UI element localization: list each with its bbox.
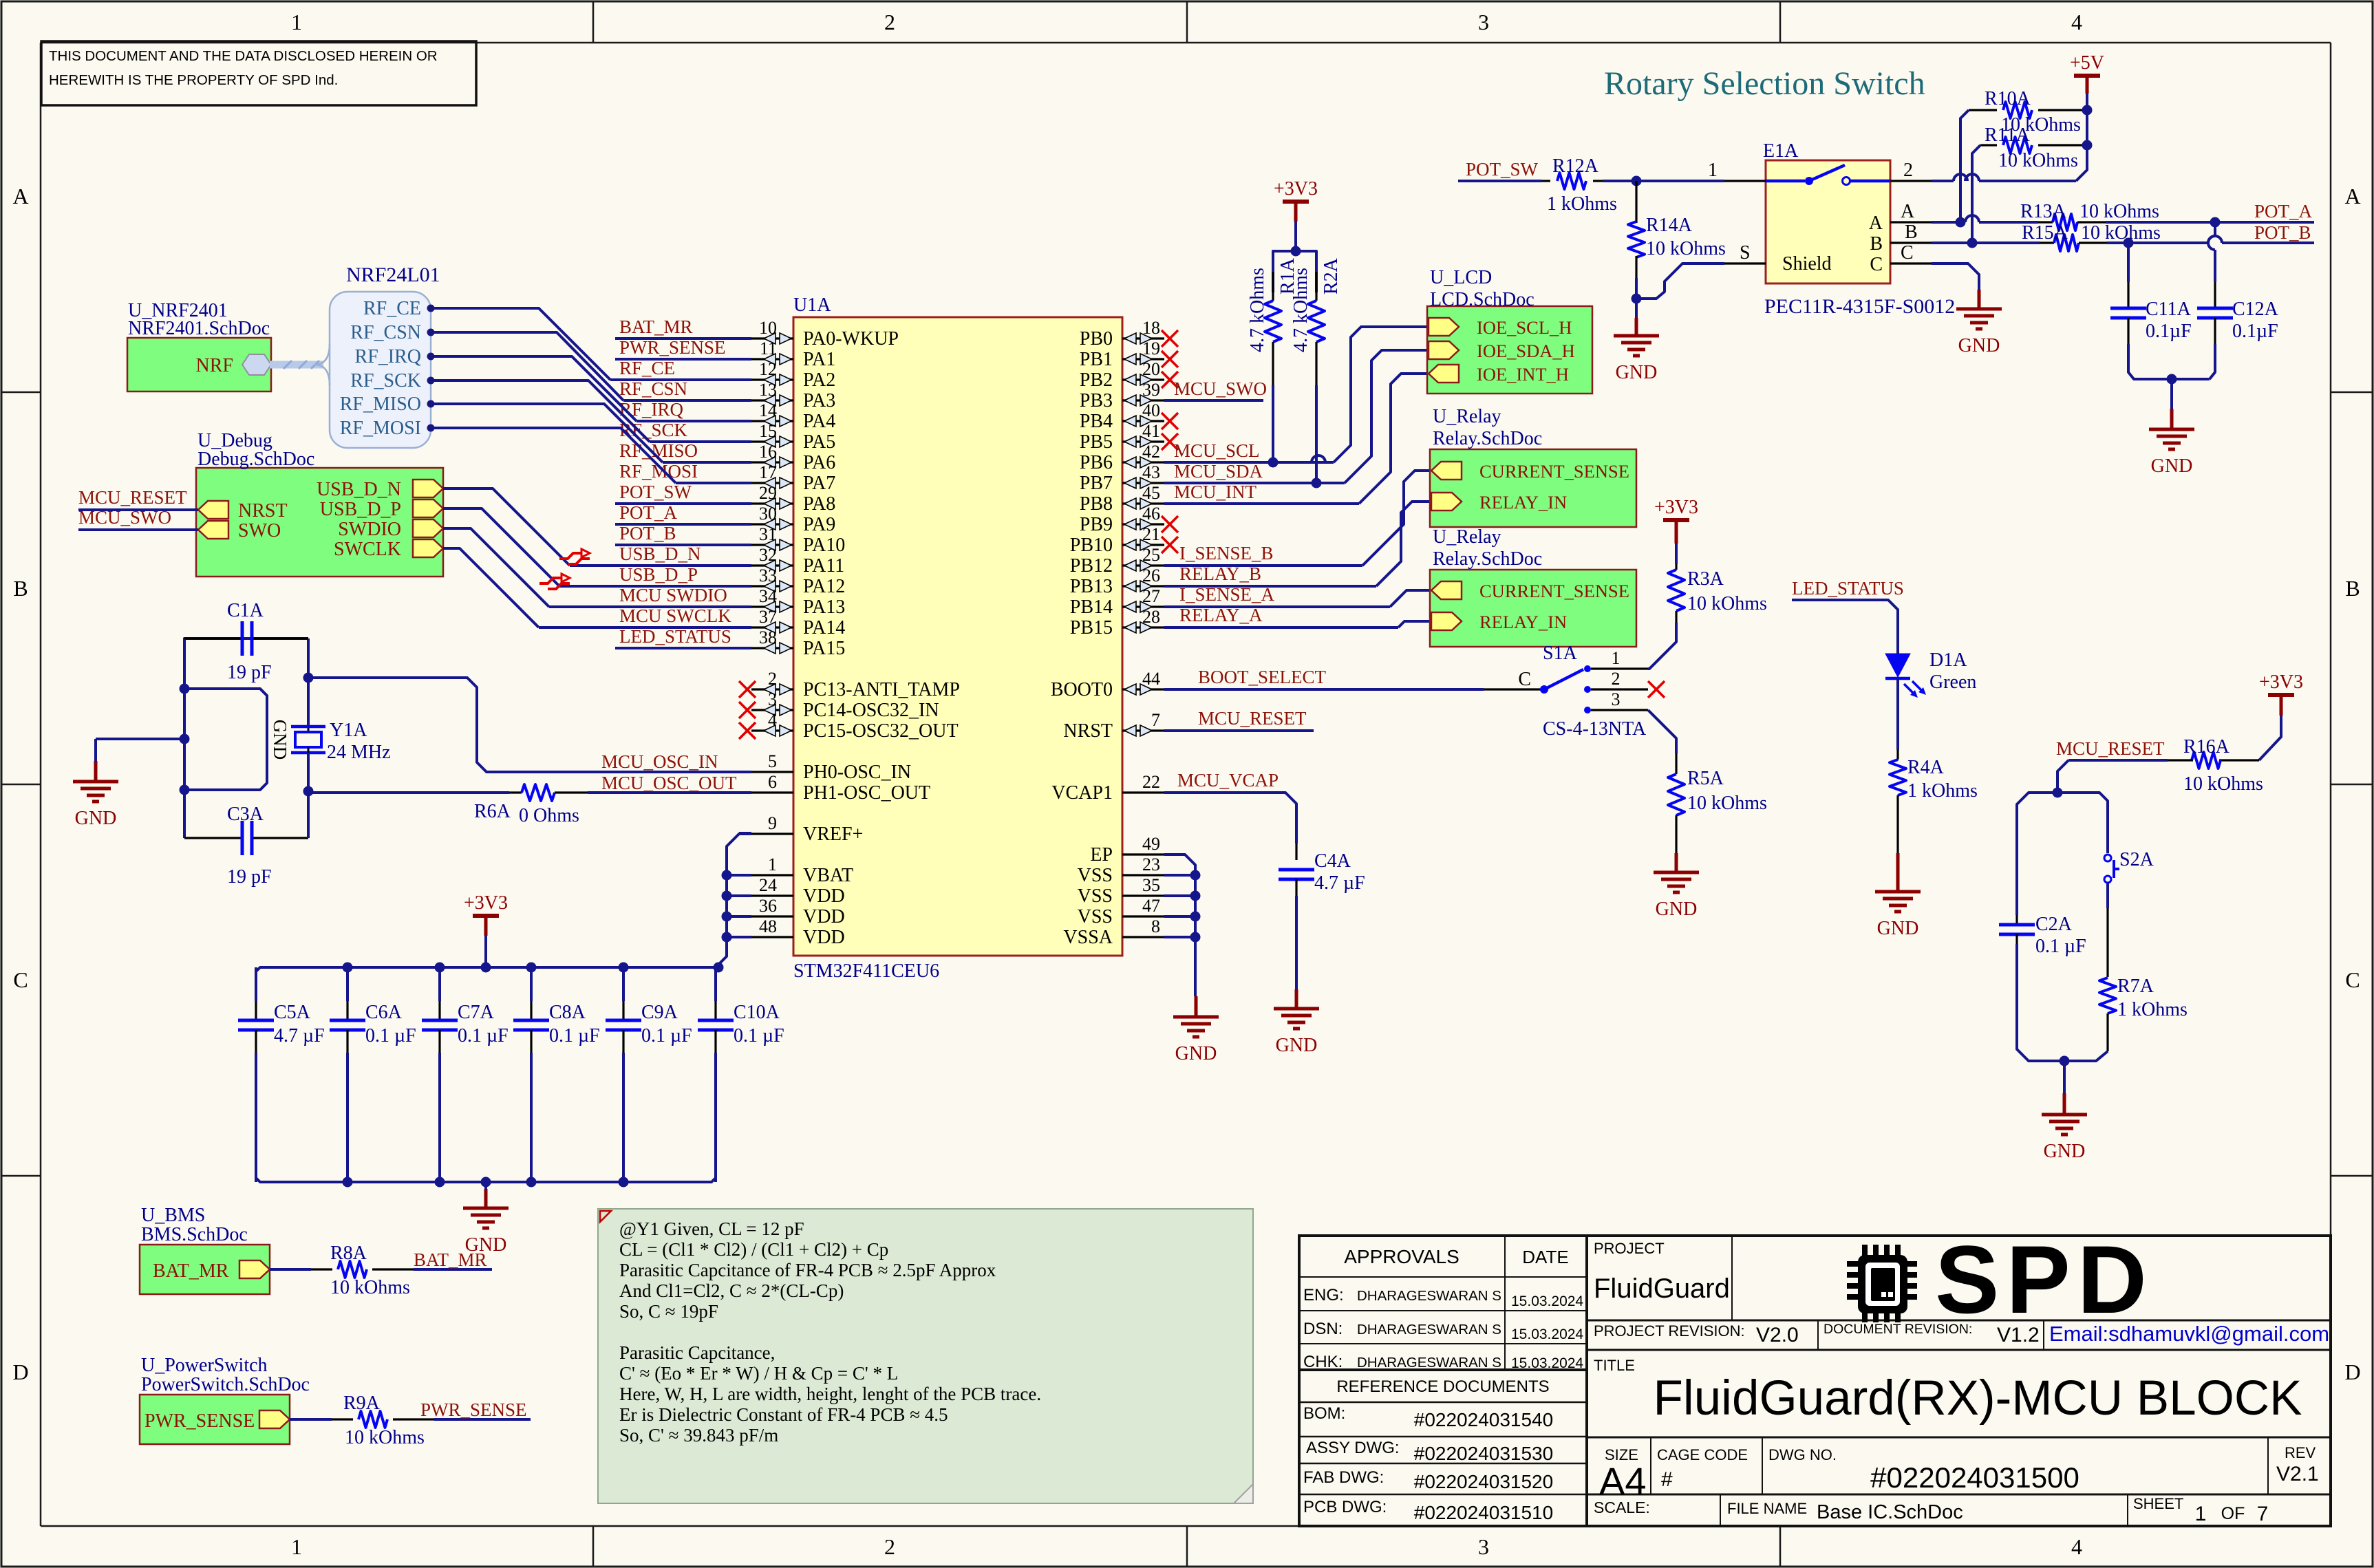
svg-text:PA11: PA11	[803, 555, 844, 577]
svg-text:C7A: C7A	[458, 1002, 495, 1023]
wire / net label POT_B	[615, 523, 751, 545]
svg-text:+3V3: +3V3	[2259, 672, 2303, 693]
svg-text:3: 3	[1612, 689, 1621, 709]
svg-text:#022024031540: #022024031540	[1414, 1409, 1553, 1430]
ground +3V3 rail caps	[463, 1182, 509, 1256]
svg-text:R5A: R5A	[1687, 768, 1724, 789]
svg-text:D: D	[2344, 1360, 2360, 1384]
svg-text:PB5: PB5	[1080, 431, 1113, 453]
svg-text:CURRENT_SENSE: CURRENT_SENSE	[1479, 581, 1629, 601]
svg-text:1: 1	[1612, 648, 1621, 668]
title block revision row	[1594, 1322, 2329, 1346]
svg-text:C' ≈ (Eo * Er * W) / H & Cp =: C' ≈ (Eo * Er * W) / H & Cp = C' * L	[619, 1363, 898, 1384]
U1A pin 13 (PA3)	[751, 380, 835, 411]
power +3V3 R16A	[2259, 672, 2303, 760]
wire VSS bus to ground	[1164, 855, 1201, 996]
SPD logo text	[1935, 1225, 2154, 1333]
wire harness to MCU	[434, 428, 676, 483]
svg-text:CS-4-13NTA: CS-4-13NTA	[1543, 718, 1647, 740]
node pullup junctions	[1268, 458, 1322, 488]
svg-text:ASSY DWG:: ASSY DWG:	[1306, 1439, 1400, 1457]
svg-text:Relay.SchDoc: Relay.SchDoc	[1433, 428, 1542, 449]
svg-text:C5A: C5A	[274, 1002, 311, 1023]
svg-text:U_PowerSwitch: U_PowerSwitch	[141, 1355, 268, 1376]
svg-text:LED_STATUS: LED_STATUS	[1792, 578, 1904, 599]
svg-text:R2A: R2A	[1320, 257, 1342, 294]
wire / net label RF_SCK at MCU	[619, 420, 751, 442]
sheet symbol U_BMS	[140, 1205, 270, 1294]
differential pair directive USB_D_P	[539, 574, 570, 589]
wire C2A branch	[2017, 793, 2057, 915]
wire / net label MCU_SDA	[1164, 461, 1345, 483]
wire SWCLK from debug	[443, 548, 539, 627]
wire harness to MCU	[434, 332, 623, 400]
svg-text:10 kOhms: 10 kOhms	[345, 1427, 425, 1448]
svg-text:U_Relay: U_Relay	[1433, 526, 1501, 548]
svg-text:NRST: NRST	[238, 500, 288, 522]
U1A pin 15 (PA5)	[751, 421, 835, 453]
svg-text:V2.0: V2.0	[1756, 1324, 1799, 1346]
sheet entry IOE_INT_H	[1429, 364, 1569, 385]
wire RELAY_A to RELAY_IN	[1164, 605, 1430, 627]
svg-text:PCB DWG:: PCB DWG:	[1303, 1498, 1387, 1516]
svg-text:A: A	[1869, 213, 1883, 234]
wire / net label RF_CE at MCU	[610, 358, 751, 380]
title block project cell	[1594, 1240, 1730, 1304]
sheet entry CURRENT_SENSE (A)	[1431, 581, 1629, 601]
wire / net label MCU SWCLK at MCU	[539, 605, 751, 627]
svg-text:Parasitic Capcitance of FR-4 P: Parasitic Capcitance of FR-4 PCB ≈ 2.5pF…	[619, 1260, 996, 1280]
svg-text:R4A: R4A	[1907, 757, 1945, 778]
U1A pin 7 (NRST)	[1063, 710, 1164, 742]
svg-text:NRF: NRF	[196, 355, 233, 376]
svg-text:C9A: C9A	[641, 1002, 678, 1023]
svg-text:R11A: R11A	[1985, 125, 2031, 146]
svg-text:A: A	[2344, 184, 2360, 208]
rotary encoder E1A	[1708, 140, 1955, 318]
svg-text:+3V3: +3V3	[1274, 178, 1318, 200]
resistor R11A 10 kOhms	[1972, 125, 2087, 243]
svg-text:C10A: C10A	[734, 1002, 780, 1023]
wire VDD bus	[718, 833, 751, 967]
ground C11A C12A	[2149, 374, 2194, 477]
svg-text:GND: GND	[1656, 899, 1698, 920]
U1A pin 36 (VDD)	[751, 896, 845, 927]
svg-text:R8A: R8A	[330, 1243, 367, 1264]
svg-text:LCD.SchDoc: LCD.SchDoc	[1430, 289, 1534, 310]
sheet entry IOE_SDA_H	[1429, 341, 1575, 361]
wire / net label USB_D_P at MCU	[559, 564, 751, 586]
wire harness to MCU	[434, 356, 637, 421]
U1A pin 39 (PB3)	[1080, 380, 1164, 411]
U1A pin 24 (VDD)	[751, 875, 845, 907]
svg-text:0.1 µF: 0.1 µF	[365, 1025, 416, 1046]
svg-text:24 MHz: 24 MHz	[327, 742, 391, 763]
svg-text:E1A: E1A	[1763, 140, 1799, 162]
svg-text:GND: GND	[1616, 362, 1658, 383]
wire MCU_OSC_IN	[308, 678, 751, 772]
svg-text:MCU_SDA: MCU_SDA	[1174, 461, 1263, 482]
svg-text:PA7: PA7	[803, 473, 835, 494]
svg-text:VREF+: VREF+	[803, 824, 863, 845]
power +3V3 R3A	[1654, 497, 1698, 564]
svg-text:PA1: PA1	[803, 349, 835, 370]
svg-text:GND: GND	[1175, 1043, 1217, 1064]
svg-text:R14A: R14A	[1646, 215, 1693, 236]
resistor R8A 10 kOhms / net BAT_MR	[270, 1243, 492, 1298]
harness entry RF_CE	[363, 298, 435, 319]
svg-text:C1A: C1A	[227, 600, 264, 621]
svg-text:VBAT: VBAT	[803, 865, 853, 886]
svg-text:HEREWITH IS THE PROPERTY OF SP: HEREWITH IS THE PROPERTY OF SPD Ind.	[49, 72, 338, 88]
sheet entry NRST	[198, 500, 288, 522]
svg-text:1: 1	[291, 1534, 302, 1559]
svg-text:PEC11R-4315F-S0012: PEC11R-4315F-S0012	[1764, 295, 1955, 318]
svg-text:PA4: PA4	[803, 411, 835, 432]
svg-text:1 kOhms: 1 kOhms	[1547, 193, 1617, 215]
svg-text:RF_IRQ: RF_IRQ	[355, 346, 421, 367]
svg-text:U1A: U1A	[793, 294, 831, 316]
svg-text:10 kOhms: 10 kOhms	[2183, 773, 2263, 795]
U1A pin 46 (PB9)	[1080, 504, 1178, 535]
svg-text:C2A: C2A	[2035, 914, 2073, 935]
svg-text:1 kOhms: 1 kOhms	[2117, 999, 2188, 1020]
U1A pin 38 (PA15)	[751, 627, 845, 659]
svg-text:FluidGuard(RX)-MCU BLOCK: FluidGuard(RX)-MCU BLOCK	[1654, 1371, 2302, 1426]
svg-text:PH0-OSC_IN: PH0-OSC_IN	[803, 762, 911, 783]
resistor R12A 1 kOhms	[1541, 155, 1617, 215]
svg-text:IOE_SCL_H: IOE_SCL_H	[1477, 317, 1572, 338]
svg-text:STM32F411CEU6: STM32F411CEU6	[793, 960, 939, 982]
svg-text:4: 4	[2071, 1534, 2082, 1559]
svg-text:V1.2: V1.2	[1997, 1324, 2040, 1346]
wire / net label PWR_SENSE	[615, 337, 751, 359]
wire GND net stub (crystal)	[184, 689, 290, 790]
wire / net label POT_SW	[615, 482, 751, 504]
capacitor C10A	[698, 967, 784, 1182]
wire / net label MCU SWDIO at MCU	[549, 585, 751, 607]
U1A pin 32 (PA11)	[751, 545, 844, 577]
svg-text:I_SENSE_A: I_SENSE_A	[1179, 584, 1275, 605]
svg-text:15.03.2024: 15.03.2024	[1511, 1327, 1583, 1342]
harness entry RF_CSN	[350, 322, 434, 343]
svg-text:PowerSwitch.SchDoc: PowerSwitch.SchDoc	[141, 1374, 310, 1395]
svg-text:USB_D_N: USB_D_N	[619, 544, 701, 564]
svg-text:NRST: NRST	[1063, 720, 1113, 742]
svg-text:PWR_SENSE: PWR_SENSE	[619, 337, 726, 358]
svg-text:0 Ohms: 0 Ohms	[519, 805, 579, 826]
svg-text:2: 2	[884, 1534, 895, 1559]
svg-text:10 kOhms: 10 kOhms	[1687, 593, 1767, 614]
svg-text:APPROVALS: APPROVALS	[1344, 1246, 1459, 1267]
sheet symbol U_Relay (B)	[1430, 406, 1636, 527]
svg-text:POT_B: POT_B	[2254, 222, 2311, 243]
svg-text:10 kOhms: 10 kOhms	[1998, 150, 2078, 171]
svg-text:CAGE CODE: CAGE CODE	[1657, 1446, 1748, 1463]
svg-text:C11A: C11A	[2146, 299, 2192, 320]
svg-text:VDD: VDD	[803, 906, 845, 927]
svg-text:VSS: VSS	[1078, 865, 1113, 886]
svg-text:36: 36	[759, 896, 777, 916]
svg-text:S1A: S1A	[1543, 643, 1578, 664]
wire MCU_INT to IOE_INT_H	[1359, 374, 1429, 504]
capacitor C8A	[513, 967, 600, 1182]
svg-text:PWR_SENSE: PWR_SENSE	[145, 1410, 255, 1432]
svg-text:R7A: R7A	[2117, 976, 2154, 997]
svg-text:MCU_SCL: MCU_SCL	[1174, 440, 1260, 461]
svg-text:FluidGuard: FluidGuard	[1594, 1274, 1730, 1304]
svg-text:10 kOhms: 10 kOhms	[2081, 222, 2161, 244]
svg-text:FAB DWG:: FAB DWG:	[1303, 1468, 1384, 1487]
svg-text:CHK:: CHK:	[1303, 1353, 1343, 1371]
SPD logo chip icon	[1847, 1245, 1917, 1322]
wire / net label LED_STATUS	[615, 626, 751, 648]
resistor R10A 10 kOhms	[1960, 88, 2087, 222]
wire / net label RF_MOSI at MCU	[619, 461, 751, 483]
svg-text:+3V3: +3V3	[1654, 497, 1698, 518]
wire / net label RF_CSN at MCU	[619, 378, 751, 400]
wire / net label MCU_SCL	[1164, 440, 1334, 462]
svg-text:9: 9	[768, 813, 777, 833]
U1A pin 22 (VCAP1)	[1051, 772, 1164, 804]
svg-text:24: 24	[759, 875, 777, 895]
resistor R3A 10 kOhms	[1668, 564, 1767, 623]
U1A pin 3 (PC14-OSC32_IN)	[739, 689, 939, 721]
U1A pin 41 (PB5)	[1080, 421, 1178, 453]
U1A pin 8 (VSSA)	[1063, 916, 1164, 948]
U1A pin 48 (VDD)	[751, 916, 845, 948]
svg-text:+3V3: +3V3	[464, 892, 508, 914]
wire harness to MCU	[434, 380, 650, 442]
wire / net label MCU_RESET to NRST	[78, 487, 198, 510]
wire / net label MCU_RESET at NRST	[1164, 708, 1314, 731]
svg-text:DOCUMENT REVISION:: DOCUMENT REVISION:	[1824, 1322, 1972, 1337]
title block	[1299, 1236, 2331, 1526]
wire / net label LED_STATUS	[1792, 578, 1904, 654]
svg-text:4.7 µF: 4.7 µF	[274, 1025, 325, 1046]
resistor R4A 1 kOhms	[1890, 750, 1978, 853]
wire / net label USB_D_N at MCU	[570, 544, 751, 566]
svg-text:MCU_OSC_OUT: MCU_OSC_OUT	[601, 773, 737, 793]
svg-text:1: 1	[768, 855, 777, 874]
svg-text:DATE: DATE	[1522, 1247, 1568, 1267]
svg-text:NRF2401.SchDoc: NRF2401.SchDoc	[128, 318, 270, 339]
svg-text:POT_SW: POT_SW	[1466, 159, 1539, 180]
svg-text:PA10: PA10	[803, 535, 845, 556]
ground R14A	[1614, 299, 1659, 383]
U1A pin 42 (PB6)	[1080, 442, 1164, 473]
svg-text:RF_IRQ: RF_IRQ	[619, 399, 684, 420]
power +3V3 pullups	[1273, 178, 1318, 292]
svg-text:1: 1	[291, 10, 302, 34]
ground C4A	[1274, 989, 1319, 1056]
svg-text:SHEET: SHEET	[2133, 1495, 2183, 1512]
switch S1A CS-4-13NTA	[1518, 643, 1665, 740]
svg-text:23: 23	[1142, 855, 1160, 874]
wire B to POT_B / resistor R15A	[1932, 222, 2314, 251]
U1A pin 21 (PB10)	[1070, 524, 1178, 556]
notes block crystal load capacitance	[598, 1209, 1253, 1503]
svg-text:10 kOhms: 10 kOhms	[2079, 201, 2159, 222]
svg-text:BMS.SchDoc: BMS.SchDoc	[141, 1224, 248, 1245]
svg-text:POT_A: POT_A	[619, 502, 678, 523]
svg-text:GND: GND	[75, 808, 117, 829]
sheet symbol U_Relay (A)	[1430, 526, 1636, 647]
svg-text:BAT_MR: BAT_MR	[414, 1249, 487, 1270]
svg-text:FILE NAME: FILE NAME	[1727, 1500, 1807, 1517]
resistor R9A 10 kOhms / net PWR_SENSE	[290, 1393, 531, 1448]
svg-text:VDD: VDD	[803, 885, 845, 907]
sheet entry CURRENT_SENSE (B)	[1431, 461, 1629, 482]
svg-text:4.7 kOhms: 4.7 kOhms	[1290, 268, 1312, 352]
title block left column text	[1303, 1246, 1583, 1523]
svg-text:So, C ≈ 19pF: So, C ≈ 19pF	[619, 1301, 718, 1322]
resistor R7A 1 kOhms	[2064, 883, 2188, 1061]
svg-text:IOE_INT_H: IOE_INT_H	[1477, 364, 1569, 385]
title block title cell	[1594, 1357, 2302, 1426]
LED D1A Green	[1885, 649, 1976, 750]
svg-text:PB0: PB0	[1080, 328, 1113, 350]
svg-text:V2.1: V2.1	[2276, 1463, 2319, 1485]
svg-text:MCU_RESET: MCU_RESET	[1198, 708, 1307, 729]
svg-text:POT_A: POT_A	[2254, 201, 2313, 222]
sheet entry SWDIO	[338, 519, 443, 540]
svg-text:PB15: PB15	[1070, 617, 1113, 638]
svg-text:Er is Dielectric Constant of F: Er is Dielectric Constant of FR-4 PCB ≈ …	[619, 1404, 948, 1425]
svg-text:BAT_MR: BAT_MR	[153, 1260, 229, 1282]
capacitor C11A	[2110, 243, 2210, 379]
svg-text:C4A: C4A	[1314, 850, 1351, 872]
harness entry RF_MISO	[340, 394, 435, 415]
U1A pin 47 (VSS)	[1078, 896, 1164, 927]
power +5V	[2070, 52, 2104, 169]
svg-text:SWDIO: SWDIO	[338, 519, 401, 540]
svg-text:B: B	[1870, 233, 1883, 255]
svg-text:RF_CSN: RF_CSN	[619, 378, 687, 399]
harness entry RF_MOSI	[340, 418, 435, 439]
svg-text:PB9: PB9	[1080, 514, 1113, 535]
svg-text:R15A: R15A	[2022, 222, 2068, 244]
svg-text:PA0-WKUP: PA0-WKUP	[803, 328, 899, 350]
svg-text:PB13: PB13	[1070, 576, 1113, 597]
svg-text:C: C	[1901, 242, 1914, 264]
svg-text:PA14: PA14	[803, 617, 845, 638]
U1A pin 9 (VREF+)	[751, 813, 863, 845]
svg-text:8: 8	[1151, 916, 1160, 936]
svg-text:B: B	[13, 576, 28, 601]
svg-text:PA6: PA6	[803, 452, 835, 473]
svg-text:ENG:: ENG:	[1303, 1286, 1344, 1304]
svg-text:5: 5	[768, 751, 777, 771]
svg-text:0.1 µF: 0.1 µF	[549, 1025, 600, 1046]
svg-text:I_SENSE_B: I_SENSE_B	[1179, 543, 1274, 563]
svg-text:DHARAGESWARAN S: DHARAGESWARAN S	[1357, 1288, 1501, 1304]
svg-text:C3A: C3A	[227, 804, 264, 825]
U1A pin 16 (PA6)	[751, 442, 835, 473]
harness entry RF_IRQ	[355, 346, 435, 367]
wire I_SENSE_B to CURRENT_SENSE	[1164, 471, 1430, 566]
svg-text:C: C	[1518, 669, 1531, 690]
svg-text:NRF24L01: NRF24L01	[346, 264, 440, 286]
wire A to POT_A / resistor R13A	[1932, 201, 2314, 230]
svg-text:C: C	[2345, 967, 2360, 992]
svg-text:PA13: PA13	[803, 597, 845, 618]
capacitor C9A	[606, 967, 692, 1182]
svg-text:PA8: PA8	[803, 493, 835, 515]
svg-text:4.7 kOhms: 4.7 kOhms	[1247, 268, 1268, 352]
U1A pin 23 (VSS)	[1078, 855, 1164, 886]
wire S1A pin1 to R3A	[1648, 623, 1676, 669]
svg-text:USB_D_P: USB_D_P	[619, 564, 698, 585]
crystal Y1A 24 MHz	[291, 720, 391, 838]
svg-text:15.03.2024: 15.03.2024	[1511, 1355, 1583, 1371]
U1A pin 10 (PA0-WKUP)	[751, 318, 899, 350]
svg-text:POT_B: POT_B	[619, 523, 676, 544]
svg-text:Relay.SchDoc: Relay.SchDoc	[1433, 548, 1542, 570]
sheet symbol U_PowerSwitch	[140, 1355, 310, 1444]
svg-text:GND: GND	[1877, 918, 1919, 939]
svg-text:MCU SWCLK: MCU SWCLK	[619, 605, 731, 626]
resistor R14A 10 kOhms	[1628, 181, 1726, 299]
node pullup right junctions	[2082, 105, 2093, 151]
svg-text:Rotary Selection Switch: Rotary Selection Switch	[1604, 65, 1925, 102]
svg-text:RELAY_B: RELAY_B	[1179, 563, 1261, 584]
svg-text:THIS DOCUMENT AND THE DATA DIS: THIS DOCUMENT AND THE DATA DISCLOSED HER…	[49, 48, 438, 64]
sheet entry USB_D_P	[320, 499, 443, 520]
wire harness to MCU	[434, 308, 610, 380]
svg-text:RELAY_A: RELAY_A	[1179, 605, 1263, 625]
svg-text:1: 1	[2195, 1503, 2207, 1525]
wire E1A pin2 to +5V	[1932, 145, 2087, 181]
svg-text:Parasitic Capcitance,: Parasitic Capcitance,	[619, 1342, 775, 1363]
svg-text:GND: GND	[2151, 455, 2193, 477]
svg-text:10 kOhms: 10 kOhms	[330, 1277, 410, 1298]
U1A pin 28 (PB15)	[1070, 607, 1164, 638]
svg-text:Here, W, H, L are width, heigh: Here, W, H, L are width, height, lenght …	[619, 1384, 1041, 1404]
svg-text:RF_CE: RF_CE	[363, 298, 421, 319]
svg-text:PC13-ANTI_TAMP: PC13-ANTI_TAMP	[803, 679, 960, 700]
svg-text:VSS: VSS	[1078, 906, 1113, 927]
MCU U1A STM32F411CEU6 body	[793, 294, 1122, 982]
svg-text:REV: REV	[2285, 1444, 2316, 1461]
U1A pin 11 (PA1)	[751, 339, 835, 370]
ground R5A	[1654, 853, 1699, 920]
harness connector NRF24L01	[314, 264, 440, 448]
sheet symbol U_NRF2401	[127, 300, 271, 391]
svg-text:MCU SWDIO: MCU SWDIO	[619, 585, 727, 605]
svg-text:D: D	[12, 1360, 28, 1384]
svg-text:PA3: PA3	[803, 390, 835, 411]
svg-text:POT_SW: POT_SW	[619, 482, 692, 502]
U1A pin 29 (PA8)	[751, 483, 835, 515]
U1A pin 30 (PA9)	[751, 504, 835, 535]
svg-text:PC15-OSC32_OUT: PC15-OSC32_OUT	[803, 720, 959, 742]
U1A pin 34 (PA13)	[751, 586, 845, 618]
svg-text:BAT_MR: BAT_MR	[619, 316, 693, 337]
svg-text:U_Relay: U_Relay	[1433, 406, 1501, 427]
svg-text:GND: GND	[1958, 335, 2000, 356]
svg-text:1 kOhms: 1 kOhms	[1907, 780, 1978, 802]
svg-text:PA5: PA5	[803, 431, 835, 453]
svg-text:MCU_SWO: MCU_SWO	[1174, 378, 1267, 399]
U1A pin 17 (PA7)	[751, 462, 835, 494]
capacitor C4A	[1279, 844, 1365, 989]
svg-text:3: 3	[1478, 1534, 1489, 1559]
svg-text:U_BMS: U_BMS	[141, 1205, 205, 1226]
svg-text:PB12: PB12	[1070, 555, 1113, 577]
disclaimer text box	[41, 41, 476, 105]
wire E1A shield to ground	[1632, 264, 1725, 304]
